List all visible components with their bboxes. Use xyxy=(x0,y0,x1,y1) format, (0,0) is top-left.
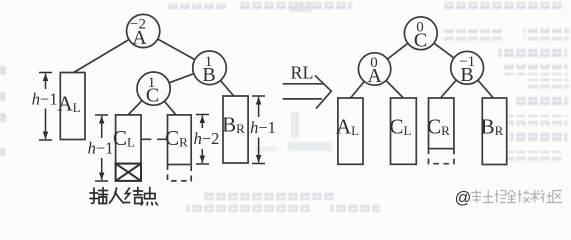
区 xyxy=(553,191,562,203)
subtree rect CR (left tree) xyxy=(165,115,191,165)
svg-text:h−1: h−1 xyxy=(250,118,276,137)
subtree rect AL (right tree) xyxy=(336,98,363,164)
入 xyxy=(110,188,117,203)
dimension h-1 for CL xyxy=(95,115,108,181)
node C (left tree) xyxy=(137,72,170,107)
dimension h-1 for BR xyxy=(252,96,265,164)
subtree rect CL (right tree) xyxy=(390,98,417,164)
svg-text:A: A xyxy=(367,65,382,87)
wire edge A-CL (right tree) xyxy=(375,69,404,98)
svg-text:h−1: h−1 xyxy=(88,139,114,158)
svg-text:B: B xyxy=(202,64,215,86)
svg-text:@: @ xyxy=(455,189,472,207)
dashed link between CL and CR xyxy=(141,138,168,140)
技 xyxy=(518,190,529,203)
svg-text:C: C xyxy=(146,85,159,107)
wire edge A-AL (left tree) xyxy=(74,31,144,73)
wire edge C-B (right tree) xyxy=(421,33,467,68)
社 xyxy=(541,190,553,203)
subtree rect AL (left tree) xyxy=(57,73,85,140)
node B (right tree) xyxy=(451,51,484,85)
土 xyxy=(483,190,494,203)
稀 xyxy=(472,190,482,203)
结 xyxy=(125,188,130,199)
掘 xyxy=(495,190,506,203)
svg-text:h−1: h−1 xyxy=(32,90,58,109)
node A (left tree) xyxy=(127,14,160,49)
wire edge B-BR (right tree) xyxy=(467,68,493,98)
svg-text:RL: RL xyxy=(290,63,313,83)
svg-text:h−2: h−2 xyxy=(194,129,220,148)
label 插入结点 (hand drawn strokes) xyxy=(90,188,157,205)
dimension h-2 for CR xyxy=(196,115,209,165)
dimension h-1 for AL xyxy=(39,73,52,141)
wire edge B-CR (right tree) xyxy=(441,68,468,98)
RL rotation arrow xyxy=(283,75,332,108)
wire edge C-A (right tree) xyxy=(375,33,421,69)
点 xyxy=(149,188,151,194)
svg-text:C: C xyxy=(414,29,427,51)
术 xyxy=(530,190,540,203)
node B (left tree) xyxy=(193,51,227,86)
wire edge B-BR (left tree) xyxy=(210,68,234,96)
wire edge C-CL (left tree) xyxy=(128,89,154,115)
subtree rect BR (left tree) xyxy=(222,96,248,163)
node C (right tree) xyxy=(404,17,437,51)
node A (right tree) xyxy=(358,53,390,87)
wire edge C-CR (left tree) xyxy=(154,89,176,115)
inserted node box with X under CL xyxy=(116,164,141,181)
dashed possible-insert box under CR xyxy=(168,165,192,181)
wire edge B-C (left tree) xyxy=(154,68,210,89)
金 xyxy=(507,190,516,203)
插 xyxy=(91,188,94,203)
wire edge A-AL (right tree) xyxy=(351,69,375,98)
subtree rect CL (left tree) xyxy=(113,115,141,164)
wire edge A-B (left tree) xyxy=(143,31,209,68)
svg-text:B: B xyxy=(460,64,473,86)
subtree rect BR (right tree) xyxy=(481,98,507,165)
svg-text:A: A xyxy=(132,27,147,49)
subtree rect CR (right tree, h-2 with dashed extension) xyxy=(427,98,454,164)
